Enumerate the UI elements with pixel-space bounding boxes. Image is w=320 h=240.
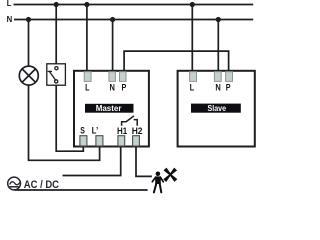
svg-text:Master: Master (96, 103, 123, 113)
svg-text:L’: L’ (92, 126, 99, 136)
svg-text:N: N (215, 82, 221, 92)
svg-text:L: L (190, 82, 195, 92)
svg-text:H1: H1 (117, 126, 127, 136)
svg-text:S: S (80, 126, 85, 136)
svg-text:N: N (7, 14, 13, 24)
svg-text:N: N (110, 82, 116, 92)
svg-text:P: P (226, 82, 231, 92)
svg-text:H2: H2 (132, 126, 143, 136)
svg-text:P: P (122, 82, 127, 92)
svg-text:AC / DC: AC / DC (24, 179, 59, 191)
svg-text:L: L (85, 82, 90, 92)
svg-text:L: L (7, 0, 12, 8)
svg-text:Slave: Slave (208, 103, 227, 113)
